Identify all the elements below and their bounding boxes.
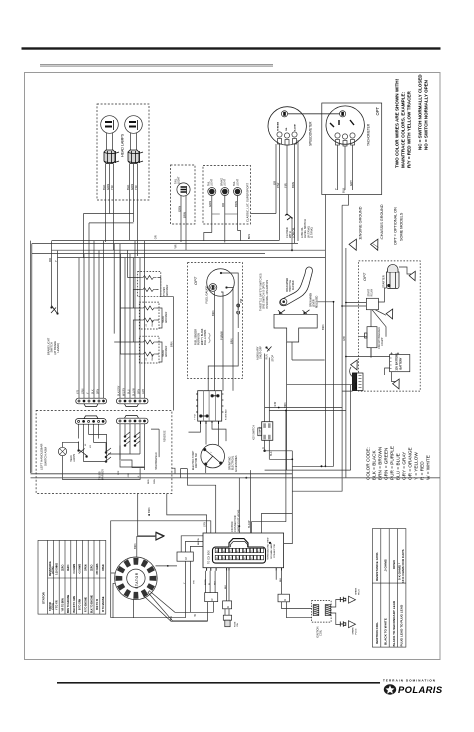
svg-text:HANDWARMER: HANDWARMER (155, 452, 158, 470)
svg-text:W/R TO W: W/R TO W (97, 598, 99, 610)
fuel gauge leads (215, 292, 233, 367)
speedometer bulb (281, 111, 287, 117)
svg-text:OPT: OPT (375, 106, 380, 115)
svg-text:BRN: BRN (291, 182, 295, 188)
bus wire 3 (52, 249, 326, 251)
tail light bulb (177, 183, 190, 196)
stator teeth (116, 558, 157, 599)
regulator pins (201, 421, 219, 424)
svg-text:(1 TANK): (1 TANK) (310, 227, 314, 238)
socket left wires BLK GRN Y/R (106, 164, 114, 250)
svg-text:<1 OHMS: <1 OHMS (73, 563, 76, 574)
svg-text:W: W (194, 614, 197, 617)
CDI connector shell (213, 539, 266, 564)
svg-text:OPEN WHEN: OPEN WHEN (287, 277, 289, 292)
svg-text:IGNITION SW: IGNITION SW (196, 453, 198, 468)
ignition coil secondary (325, 605, 331, 616)
fuse plug (225, 609, 229, 615)
head lamps dashed box (97, 104, 149, 200)
svg-text:.3 OHMS: .3 OHMS (384, 559, 388, 572)
svg-text:PLUG LEAD TO PLUG LEAD: PLUG LEAD TO PLUG LEAD (399, 604, 403, 646)
svg-text:STOP: STOP (272, 355, 275, 362)
svg-text:Y/R: Y/R (283, 183, 287, 188)
svg-text:OPEN: OPEN (86, 564, 88, 571)
speedometer terminals (277, 132, 282, 137)
svg-text:ZERO: ZERO (62, 564, 64, 571)
diagram frame (25, 73, 441, 660)
wires below lower connectors (79, 425, 99, 448)
svg-text:RESISTANCE: RESISTANCE (49, 561, 52, 576)
svg-text:CONNECTOR: CONNECTOR (274, 544, 276, 558)
tail light leads GRN BRN (181, 196, 186, 250)
socket left (104, 150, 119, 164)
dimmer switch (79, 442, 87, 456)
svg-text:GRY: GRY (204, 521, 207, 527)
ignition coil dashed box (312, 601, 332, 623)
bus wire 4 (32, 253, 265, 255)
classic tail jumper (212, 213, 238, 215)
svg-text:10 AMP: 10 AMP (381, 337, 384, 346)
throttle switch 1 (278, 310, 285, 315)
bus wire 5 (58, 257, 326, 259)
svg-text:BLK/GRY: BLK/GRY (118, 385, 121, 396)
svg-text:BLU = BLUE: BLU = BLUE (396, 453, 401, 480)
svg-text:Y/R: Y/R (194, 580, 196, 584)
svg-text:BLK: BLK (170, 616, 173, 621)
svg-text:(WIRE EXIT VIEW): (WIRE EXIT VIEW) (236, 510, 240, 532)
head lamp right leads (131, 133, 137, 150)
classic tail wires (212, 196, 238, 243)
svg-text:CLASSIC, LXT, SUPERSPORT: CLASSIC, LXT, SUPERSPORT (246, 183, 250, 222)
starter ground (409, 271, 419, 281)
svg-text:RED: RED (148, 479, 150, 484)
svg-text:HEAD LAMPS: HEAD LAMPS (120, 133, 124, 157)
voltage regulator block (198, 391, 222, 421)
svg-text:OPERATING: OPERATING (229, 456, 232, 470)
svg-text:OPEN WHEN: OPEN WHEN (311, 292, 313, 307)
svg-text:NO = SWITCH NORMALLY OPEN: NO = SWITCH NORMALLY OPEN (424, 80, 429, 150)
bus junction dots (245, 477, 247, 479)
svg-text:R TO ENGINE: R TO ENGINE (86, 597, 88, 612)
throttle switch 2 (303, 310, 310, 315)
svg-text:COLOR CODE:: COLOR CODE: (366, 447, 371, 480)
svg-text:BRN: BRN (170, 341, 174, 347)
fuel gauge sender bulb (209, 284, 217, 292)
CDI bottom pin stubs (207, 568, 282, 571)
svg-text:R: R (283, 599, 287, 601)
svg-text:Y: Y (334, 188, 338, 190)
svg-text:KEY SWITCH: KEY SWITCH (253, 425, 256, 440)
key switch top bus (265, 408, 346, 411)
speedometer wires (276, 140, 298, 243)
svg-text:P/W: P/W (276, 182, 280, 188)
stator resistance table (38, 540, 106, 614)
fuse box (223, 601, 232, 609)
thumb warmer resistor 1 (140, 276, 157, 280)
svg-text:STATOR: STATOR (42, 591, 46, 604)
head lamp right (125, 116, 143, 134)
brake switch symbol (51, 306, 58, 315)
svg-text:W/GN: W/GN (205, 579, 207, 585)
CDI pins row 1 (215, 548, 263, 552)
handlebar connector lower right (117, 416, 149, 424)
CDI pins row 2 (215, 555, 263, 559)
key switch wires (265, 408, 270, 460)
svg-text:Y Y W: Y Y W (195, 414, 197, 420)
svg-text:BLK: BLK (225, 584, 227, 589)
OPT tach box (322, 103, 382, 195)
svg-text:SPARK: SPARK (352, 627, 355, 635)
svg-text:W/GRY: W/GRY (123, 388, 126, 396)
svg-text:GRN = GREEN: GRN = GREEN (384, 448, 389, 480)
stator table names row (49, 594, 105, 613)
svg-text:STATOR: STATOR (135, 572, 139, 589)
svg-text:REVERSE: REVERSE (164, 430, 167, 442)
handlebar riser wires (79, 241, 104, 386)
horizontal link y385 (287, 384, 353, 386)
svg-text:(±20%): (±20%) (53, 566, 55, 574)
left edge vertical pair (31, 241, 32, 473)
svg-text:LIGHT: LIGHT (177, 176, 181, 184)
aux shutoff drop wires (265, 354, 270, 411)
wires above connectors (79, 365, 104, 398)
fuel sender wires to regulator (208, 332, 238, 391)
svg-text:LAMPS: LAMPS (73, 453, 76, 462)
ground triangle below handlebar (156, 532, 164, 540)
mid bus y464 (265, 385, 351, 470)
hand warmer dashed box 2 (139, 336, 159, 363)
svg-text:WARMER: WARMER (165, 312, 168, 323)
svg-text:BRN: BRN (321, 324, 325, 330)
svg-text:Y: Y (211, 451, 213, 453)
spark plug top (340, 597, 346, 603)
switch asm internal wires (108, 429, 159, 467)
svg-text:WARMER: WARMER (165, 346, 168, 357)
svg-text:ELECTRICAL: ELECTRICAL (232, 455, 235, 470)
bus wire to oil switch (89, 222, 134, 224)
hand warmer resistor 1 (141, 306, 157, 310)
coil to plug wires (331, 600, 341, 625)
engine ground legend symbol (349, 239, 362, 252)
starter motor (387, 264, 400, 288)
svg-text:GRN: GRN (82, 388, 85, 394)
svg-text:HI: HI (85, 443, 87, 446)
svg-text:PUR/W ON: PUR/W ON (199, 333, 201, 345)
svg-text::ENGINE GROUND: :ENGINE GROUND (359, 206, 363, 240)
hand warmer 2 resistor 1 (141, 340, 157, 344)
svg-text:GRY: GRY (142, 388, 145, 394)
svg-text:HI BEAM: HI BEAM (277, 122, 280, 131)
svg-text:BLK/W: BLK/W (248, 520, 251, 528)
solenoid connector (353, 373, 364, 391)
left handlebar switch asm dashed box (36, 411, 172, 494)
key switch to CDI wires (284, 451, 293, 544)
svg-text:LOW: LOW (128, 472, 130, 478)
CDI below wires to resistor pack (205, 571, 229, 601)
throttle drop wires (287, 342, 325, 470)
magneto lower wires (206, 463, 221, 473)
svg-text:R: R (210, 598, 214, 600)
brake switch riser joins (52, 241, 58, 251)
svg-text:0.19 OHMS: 0.19 OHMS (57, 563, 59, 575)
svg-text:R: R (184, 557, 188, 560)
CDI box connector outer (203, 533, 284, 568)
svg-text:BLU/W: BLU/W (133, 388, 136, 396)
svg-text:TERRAIN DOMINATION: TERRAIN DOMINATION (383, 679, 436, 683)
svg-text:BLK/W: BLK/W (198, 537, 200, 545)
key switch body (262, 422, 273, 441)
svg-text:OR = ORANGE: OR = ORANGE (408, 447, 413, 480)
svg-text:OIL: OIL (286, 127, 288, 131)
svg-text:GRN: GRN (177, 206, 181, 212)
key to CDI link (261, 513, 292, 533)
svg-text:IN NORMAL OPERATION: IN NORMAL OPERATION (266, 280, 269, 309)
svg-text:SHUT-OFF: SHUT-OFF (259, 346, 263, 359)
svg-text:PUR/W: PUR/W (219, 331, 223, 340)
svg-text:GRY: GRY (349, 180, 353, 186)
header rule (22, 47, 441, 49)
svg-text:THROTTLE: THROTTLE (290, 279, 292, 292)
stator-side loop wire (111, 521, 211, 618)
svg-text:BRN: BRN (147, 507, 151, 513)
throttle lever (280, 267, 313, 306)
svg-text:OPT: OPT (362, 272, 367, 281)
svg-text:10 K OHMS FOR CAPS: 10 K OHMS FOR CAPS (401, 549, 405, 583)
svg-text:12V BATTERY: 12V BATTERY (395, 353, 399, 371)
BLK long vertical (324, 195, 326, 467)
battery ground (393, 379, 404, 390)
svg-text:R: R (262, 447, 265, 449)
tail light dashed box (171, 165, 196, 224)
stator left wires (111, 573, 116, 618)
svg-text:OR: OR (221, 203, 225, 207)
svg-text:R/Y = RED WITH YELLOW TRACER: R/Y = RED WITH YELLOW TRACER (407, 91, 412, 168)
svg-text:ELECTRIC START: ELECTRIC START (192, 450, 195, 470)
svg-text:PW: PW (239, 298, 243, 303)
svg-text:BLU: BLU (128, 389, 131, 394)
svg-text:RESISTANCE ±20%: RESISTANCE ±20% (375, 552, 379, 581)
svg-text:COIL: COIL (319, 629, 323, 636)
svg-text:Y: Y (54, 260, 58, 262)
tachometer bulb (340, 111, 346, 117)
ignition resistor box (278, 594, 289, 602)
svg-text:IGNITION COIL: IGNITION COIL (375, 622, 379, 644)
svg-text:BRN: BRN (234, 201, 238, 207)
fuel gauge internal wires (221, 273, 239, 330)
svg-text:LEVER: LEVER (314, 299, 316, 307)
svg-text:BLK: BLK (270, 451, 273, 456)
relay to starter wire (378, 288, 386, 302)
svg-text:Y/R: Y/R (77, 390, 80, 394)
bus wire 1 (52, 240, 280, 242)
handlebar connector lower left (75, 416, 106, 424)
svg-text:SWITCH ASM: SWITCH ASM (43, 446, 47, 466)
svg-text:Y/R: Y/R (110, 185, 114, 190)
svg-text:EMPTY, BLANK: EMPTY, BLANK (201, 328, 204, 345)
svg-text:NC = SWITCH NORMALLY CLOSED: NC = SWITCH NORMALLY CLOSED (418, 74, 423, 150)
svg-text:RUN: RUN (266, 354, 269, 359)
svg-text:ACCESSORIES: ACCESSORIES (235, 455, 238, 472)
thumb warmer resistor 2 (140, 288, 157, 292)
svg-text:STATOR: STATOR (49, 602, 52, 611)
connector ground (351, 360, 362, 371)
polaris logo (384, 684, 443, 695)
stator (115, 557, 158, 600)
low oil level switch (285, 214, 292, 220)
start relay (366, 298, 378, 309)
fuel gauge (207, 269, 235, 297)
magneto circle (201, 444, 225, 468)
svg-text:BRN TO ENGINE: BRN TO ENGINE (68, 594, 70, 613)
throttle pivot (281, 299, 287, 305)
throttle switch housing (274, 314, 317, 342)
bus wire OR (84, 213, 277, 215)
head lamp left leads (107, 133, 113, 150)
svg-text:BLK TO ENGINE: BLK TO ENGINE (91, 595, 93, 613)
svg-text:BRN: BRN (182, 212, 186, 218)
svg-text:ZERO: ZERO (91, 564, 93, 571)
stator to rectifier wire (148, 566, 208, 621)
footer rule (57, 682, 380, 684)
svg-text:27: 27 (146, 357, 148, 360)
right handlebar risers (120, 241, 145, 381)
dimmer lamp (58, 447, 66, 455)
svg-text:BLACK TO WHITE: BLACK TO WHITE (384, 618, 388, 645)
hand warmer dashed box 1 (139, 302, 159, 329)
battery (390, 355, 410, 372)
svg-text:TERMINAL END VIEW: TERMINAL END VIEW (267, 537, 270, 560)
svg-text:POLARIS: POLARIS (398, 684, 443, 695)
svg-text:TO CDI BOX: TO CDI BOX (208, 550, 211, 564)
warmer link wires (114, 278, 141, 355)
svg-text:BLK: BLK (92, 389, 95, 394)
brake switch leads OR Y (52, 241, 58, 312)
svg-text:BLK/R TO GRN: BLK/R TO GRN (74, 596, 76, 613)
svg-text:ZERO: ZERO (68, 564, 70, 571)
svg-text:SPEEDOMETER: SPEEDOMETER (309, 121, 313, 146)
svg-text:Y/R: Y/R (174, 244, 178, 248)
stator table values row (49, 561, 105, 576)
svg-text:BRN: BRN (247, 234, 251, 240)
svg-text:TACHOMETER: TACHOMETER (367, 123, 371, 146)
throttle housing right drop (317, 302, 333, 467)
svg-text:R/W: R/W (274, 401, 277, 406)
svg-text:W TO ENGINE: W TO ENGINE (103, 596, 105, 612)
svg-text:Y TO Y/R: Y TO Y/R (57, 600, 59, 610)
hand warmer switch 2 (135, 432, 140, 445)
svg-text:OPEN: OPEN (392, 559, 396, 569)
svg-text:OF MAIN HARN.: OF MAIN HARN. (270, 542, 273, 559)
svg-text:FUEL SENDER: FUEL SENDER (196, 329, 198, 345)
svg-text:LIGHT: LIGHT (236, 178, 239, 186)
fuel gauge OPT dashed box (188, 263, 243, 379)
svg-text:SPARK: SPARK (355, 587, 358, 595)
resistor pack box (205, 593, 218, 602)
svg-text:SOME MODELS: SOME MODELS (400, 212, 404, 241)
rectifier box (177, 552, 193, 561)
tachometer wires (338, 145, 353, 190)
svg-text:PUR = PURPLE: PUR = PURPLE (390, 446, 395, 480)
warmer right link (157, 278, 174, 411)
speedometer (268, 107, 306, 145)
svg-text:BRN: BRN (138, 389, 141, 394)
svg-text:BRN: BRN (211, 310, 215, 316)
svg-text:ILLUM: ILLUM (295, 124, 297, 131)
svg-text:OHMS: OHMS (152, 319, 154, 326)
tachometer (326, 106, 364, 144)
svg-text:STARTER: STARTER (382, 275, 386, 288)
head lamp left (101, 116, 119, 134)
svg-text:FUEL GAUGE: FUEL GAUGE (205, 285, 209, 303)
thumb warmer switch wiring (84, 435, 107, 462)
gray wire to CDI (181, 469, 251, 533)
svg-text:BLK: BLK (341, 188, 345, 193)
ignition coil table (372, 529, 406, 648)
svg-text:OR: OR (154, 235, 158, 239)
svg-text:27: 27 (146, 323, 148, 326)
resistor pack lower wires (208, 602, 214, 622)
breaker wires (371, 310, 386, 358)
classic tail lights dashed box (203, 166, 251, 225)
relay ground (386, 309, 397, 320)
svg-text:(COIL): (COIL) (53, 603, 55, 610)
svg-text:PLUG: PLUG (359, 589, 361, 595)
left stator return wires (111, 617, 186, 619)
main bus double line (31, 473, 293, 475)
CDI pin numbers (216, 551, 260, 560)
svg-text:WARMER: WARMER (166, 285, 169, 296)
relay feed (342, 303, 366, 307)
fuel lead connector R/W (237, 304, 239, 328)
OPT starter dashed box (359, 261, 421, 391)
warmer feed verticals (114, 244, 133, 343)
svg-text::CHASSIS GROUND: :CHASSIS GROUND (380, 204, 384, 240)
svg-text:Y/R: Y/R (134, 185, 138, 190)
svg-text:TWO COLOR WIRES ARE SHOWN WITH: TWO COLOR WIRES ARE SHOWN WITH! (395, 78, 400, 168)
svg-text:LEVER): LEVER) (56, 343, 60, 353)
regulator to magneto wires (189, 423, 227, 445)
tach wire joins (342, 195, 348, 206)
svg-text:BRN: BRN (229, 338, 233, 344)
svg-text:BRN: BRN (133, 543, 137, 549)
thumb warmer dashed box (138, 272, 161, 297)
stator lower diagonal wires (134, 592, 214, 622)
CDI right wires down (276, 571, 281, 595)
handlebar connector upper left (76, 398, 107, 406)
svg-text:LIGHT: LIGHT (211, 178, 214, 186)
handlebar connector upper right (117, 398, 149, 406)
svg-text:FULL & OHMS: FULL & OHMS (205, 329, 207, 345)
svg-text:R = RED: R = RED (420, 461, 425, 480)
polaris star (386, 685, 395, 694)
circuit breaker (367, 327, 377, 348)
svg-text:<85 OHMS: <85 OHMS (96, 563, 99, 575)
svg-text:BLK: BLK (280, 577, 282, 582)
spark plug bottom (340, 621, 346, 627)
bus wire 2 (32, 243, 298, 245)
svg-text:OPT: OPT (193, 276, 198, 285)
socket right (128, 150, 143, 164)
svg-text:LIGHT: LIGHT (224, 178, 227, 186)
BRN drop from key area (252, 411, 286, 534)
tail light drop wires (181, 231, 241, 251)
svg-text:B TO GRN: B TO GRN (80, 598, 82, 610)
svg-text:Y = YELLOW: Y = YELLOW (414, 452, 419, 480)
svg-text:GRN: GRN (208, 201, 212, 207)
svg-text:W = WHITE: W = WHITE (426, 455, 431, 480)
svg-text:BRN: BRN (97, 389, 100, 394)
header subrule (40, 63, 273, 66)
